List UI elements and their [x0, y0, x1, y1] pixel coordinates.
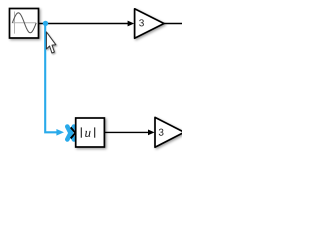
- input port chevron (black): [71, 127, 76, 138]
- gain2 value label 3: [159, 129, 164, 136]
- gain block U-top (Gain, value 3): [135, 9, 164, 38]
- mouse cursor (arrow pointer): [46, 32, 56, 53]
- gain block bottom (Gain, value 3), tip clipped at right edge: [155, 117, 184, 147]
- arrowhead into Gain1: [128, 21, 135, 27]
- wire: Abs output to Gain2: [104, 131, 148, 133]
- arrowhead into Gain2: [148, 130, 155, 136]
- wire: Gain1 output to right edge: [164, 23, 183, 25]
- wire: Sine Wave output to Gain1 (horizontal, y=23.5): [39, 23, 129, 25]
- Abs label |u| : right bar: [94, 127, 96, 137]
- Abs block |u|: [76, 118, 105, 147]
- branch point node (blue dot): [43, 21, 48, 26]
- Abs label |u| : left bar: [80, 127, 82, 137]
- blue arrowhead at line end: [56, 129, 64, 136]
- sine wave block (Sine Wave): [10, 9, 39, 39]
- sine icon curve: [12, 13, 36, 33]
- Abs label |u| : italic u: [85, 131, 90, 137]
- sine icon axes: [12, 22, 36, 24]
- port hint cue (blue X) at Abs input: [67, 127, 74, 140]
- selected branch wire (blue), vertical then horizontal: [45, 24, 58, 133]
- gain1 value label 3: [139, 19, 144, 26]
